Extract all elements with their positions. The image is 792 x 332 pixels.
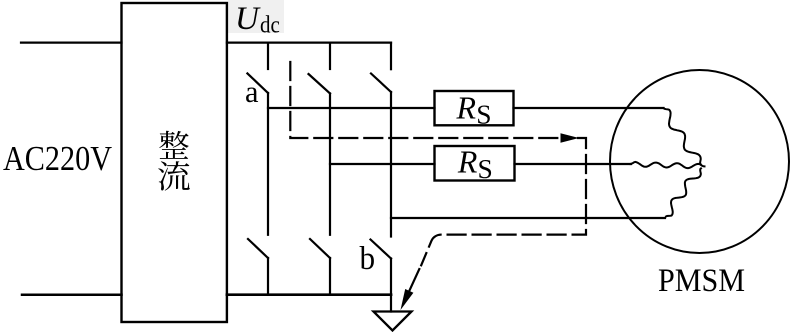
- wire: RS1 to motor: [514, 107, 664, 109]
- svg-text:R: R: [456, 89, 477, 125]
- svg-text:U: U: [235, 1, 261, 37]
- arrowhead of sense line: [561, 133, 580, 142]
- wire: AC input bottom: [22, 293, 122, 296]
- dashed sense line from node a (vertical + horizontal run to arrow): [290, 62, 560, 138]
- svg-text:a: a: [245, 74, 259, 109]
- resistor RS1 box: [435, 91, 514, 125]
- motor winding phase b (wavy): [631, 162, 705, 168]
- wire: ground stub: [390, 295, 392, 312]
- wire: RS2 to motor: [515, 163, 632, 165]
- switch S4 bottom blade (leg a): [248, 239, 268, 258]
- wire: leg a lower vertical: [267, 258, 269, 295]
- label 整: [159, 131, 188, 159]
- switch S3 top (leg b): upper stub: [329, 43, 331, 69]
- arrowhead of feedback path: [401, 289, 414, 310]
- wire: node a to RS1: [268, 107, 435, 109]
- svg-text:R: R: [457, 144, 478, 180]
- switch S5 top (leg c): upper stub: [390, 43, 392, 70]
- wire: leg c lower vertical: [390, 259, 392, 295]
- faint scan halo behind Udc: [228, 0, 284, 33]
- switch S1 top blade: [247, 73, 268, 93]
- switch S1 top (leg a): upper stub: [267, 43, 269, 69]
- switch S3 top blade: [309, 74, 331, 94]
- svg-text:PMSM: PMSM: [658, 263, 745, 299]
- switch S2 bottom blade (leg c): [371, 240, 392, 259]
- motor winding phase c (wavy): [666, 168, 701, 216]
- wire: leg b lower vertical: [329, 258, 331, 295]
- wire: leg c mid vertical: [390, 92, 392, 237]
- switch S5 top blade: [371, 74, 391, 93]
- wire: leg b mid vertical: [329, 94, 331, 235]
- svg-text:S: S: [478, 153, 493, 184]
- switch S6 bottom blade (leg b): [310, 239, 330, 258]
- svg-text:S: S: [476, 98, 491, 129]
- svg-text:AC220V: AC220V: [3, 139, 112, 178]
- dashed feedback path: [421, 138, 586, 265]
- feedback arrow shaft: [404, 269, 420, 303]
- wire: DC- bottom bus: [227, 293, 391, 296]
- label 流: [158, 161, 190, 190]
- svg-text:dc: dc: [260, 13, 280, 39]
- wire: AC input top: [21, 41, 122, 43]
- ground symbol: [374, 312, 412, 331]
- svg-text:b: b: [360, 241, 376, 277]
- rectifier block 整流: [122, 3, 227, 322]
- wire: DC+ top bus: [227, 41, 391, 43]
- motor PMSM circle: [610, 70, 789, 253]
- motor winding phase a (wavy): [664, 108, 702, 164]
- wire: phase c to motor: [391, 217, 665, 219]
- wire: phase b to RS2: [330, 163, 435, 165]
- wire: leg a mid vertical: [267, 93, 269, 235]
- resistor RS2 box: [435, 146, 515, 181]
